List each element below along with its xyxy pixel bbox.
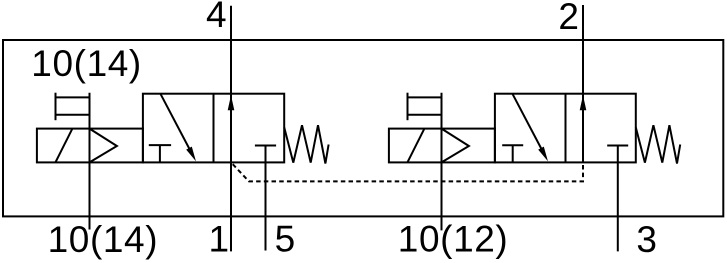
solenoid coil V1 box [37,129,143,163]
arrowhead diagonal V1 [186,147,196,162]
svg-text:10(12): 10(12) [398,219,509,260]
flow diagonal arrow V2 left square [512,94,543,152]
blocked port T (port5, right square V1) [255,146,276,163]
border frame [3,40,723,216]
solenoid coil V2 diagonal [407,129,424,163]
arrowhead up V2 [580,95,587,110]
spring V1 [284,125,328,163]
wire pilot line 10(14) [89,93,91,230]
pilot triangle V2 [442,129,469,163]
svg-text:4: 4 [206,0,227,35]
svg-text:2: 2 [558,0,579,37]
svg-text:1: 1 [209,219,230,260]
pilot triangle V1 [90,129,117,163]
valve body V2 [495,94,636,163]
svg-text:5: 5 [275,219,296,260]
wire port 2 line [582,5,584,162]
blocked port T (port3, right square V2) [607,146,628,163]
blocked port T (port1, left square V1) [149,145,171,162]
wire port 5 line [265,162,267,250]
blocked port T (left square V2) [502,145,523,162]
spring V2 [636,125,680,163]
valve body V1 [143,94,284,163]
svg-text:10(14): 10(14) [31,43,142,84]
wire port 4 to 1 line [230,6,232,252]
wire pilot line 10(12) [441,93,443,231]
arrowhead up V1 [228,95,235,110]
flow diagonal arrow V1 left square [160,94,191,152]
svg-text:3: 3 [636,219,657,260]
pilot dashed line 1-to-2 [231,162,583,181]
arrowhead diagonal V2 [538,147,548,162]
solenoid coil V2 box [389,129,495,163]
wire port 3 line [617,162,619,251]
valve divider V2 [565,94,567,163]
valve divider V1 [213,94,215,163]
svg-text:10(14): 10(14) [48,219,159,260]
solenoid coil V1 diagonal [55,129,72,163]
manual override bracket V2 [408,93,442,121]
manual override bracket V1 [56,93,90,121]
